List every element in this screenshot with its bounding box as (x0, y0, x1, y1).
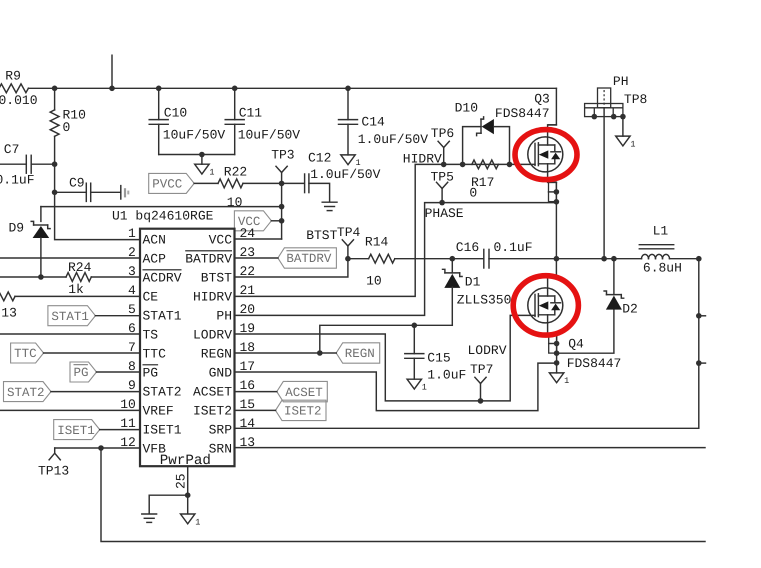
net flag ACSET (277, 381, 328, 401)
svg-text:0: 0 (469, 185, 477, 200)
svg-text:D10: D10 (455, 100, 478, 115)
svg-text:PG: PG (143, 366, 159, 381)
wire TP8 center to PH rail (603, 108, 605, 259)
svg-text:FDS8447: FDS8447 (567, 356, 622, 371)
svg-text:TP5: TP5 (431, 169, 454, 184)
ground PGND1 below C14 (341, 155, 355, 165)
wire BTST pin22 (235, 259, 348, 277)
wire PH pin20 (235, 203, 557, 316)
node D2 top junction (611, 256, 617, 262)
svg-text:C7: C7 (4, 142, 20, 157)
wire pin25 stub (187, 495, 189, 514)
node rail junctions (52, 86, 58, 92)
resistor R17 (472, 160, 499, 169)
node rail corner (696, 256, 702, 262)
svg-text:11: 11 (120, 416, 136, 431)
svg-text:C16: C16 (456, 240, 479, 255)
svg-text:ISET1: ISET1 (143, 423, 182, 438)
testpoint TP6 (438, 141, 449, 147)
svg-text:15: 15 (240, 397, 256, 412)
svg-text:6.8uH: 6.8uH (643, 260, 682, 275)
svg-text:PG: PG (74, 366, 89, 380)
node VFB junction (98, 445, 104, 451)
svg-text:24: 24 (240, 226, 256, 241)
wire TS pin6 (0, 333, 140, 335)
svg-text:TTC: TTC (143, 347, 167, 362)
svg-text:PH: PH (216, 309, 232, 324)
svg-text:1.0uF/50V: 1.0uF/50V (358, 132, 428, 147)
svg-text:TP8: TP8 (624, 92, 647, 107)
svg-text:4: 4 (128, 283, 136, 298)
svg-text:ISET2: ISET2 (284, 405, 322, 419)
capacitor C15 (413, 325, 415, 353)
svg-text:PwrPad: PwrPad (160, 453, 211, 469)
wire PwrPad pin 25 (187, 466, 189, 495)
svg-text:25: 25 (174, 473, 189, 489)
svg-text:TP13: TP13 (38, 464, 69, 479)
wire ISET1 to pin11 (100, 429, 140, 431)
svg-text:1: 1 (422, 383, 427, 393)
svg-text:ACSET: ACSET (193, 385, 232, 400)
node REGN junction (317, 350, 323, 356)
wire pin23 to BATDRV flag (235, 257, 278, 259)
node C15 junction (412, 323, 418, 329)
svg-text:10: 10 (366, 274, 382, 289)
ground PGND1 below C15 (407, 379, 421, 389)
wire VREF pin10 (0, 409, 140, 411)
svg-text:Q3: Q3 (534, 91, 550, 106)
svg-text:PVCC: PVCC (152, 178, 182, 192)
svg-text:0.010: 0.010 (0, 93, 38, 108)
svg-text:ZLLS350: ZLLS350 (457, 292, 512, 307)
svg-text:1.0uF: 1.0uF (427, 367, 466, 382)
node Q3 source junctions (554, 189, 560, 195)
svg-text:LODRV: LODRV (193, 328, 232, 343)
ground earth below PwrPad (142, 513, 157, 515)
svg-text:C11: C11 (239, 106, 263, 121)
svg-text:VREF: VREF (143, 404, 174, 419)
svg-text:R22: R22 (224, 164, 247, 179)
svg-text:TS: TS (143, 328, 159, 343)
node PH rail junction (601, 256, 607, 262)
wire Q4 source pins (556, 334, 558, 373)
diode D2 (607, 294, 622, 296)
connector TP8 (598, 88, 611, 108)
wire VFB down and right (101, 448, 705, 542)
svg-text:1: 1 (630, 139, 635, 149)
svg-text:C9: C9 (69, 176, 85, 191)
net flag STAT1 (48, 306, 96, 326)
svg-text:TP3: TP3 (271, 148, 294, 163)
op-amp U1 bq24610RGE box (140, 229, 235, 467)
svg-text:C12: C12 (308, 151, 331, 166)
capacitor C9 (55, 191, 87, 193)
ground PGND1 below Q4 (549, 373, 563, 383)
svg-text:LODRV: LODRV (468, 343, 507, 358)
node pin25 junction (185, 492, 191, 498)
node C9 junction (52, 190, 58, 196)
svg-text:SRN: SRN (209, 442, 232, 457)
svg-text:D9: D9 (9, 221, 25, 236)
svg-text:21: 21 (240, 283, 256, 298)
svg-text:STAT2: STAT2 (7, 386, 45, 400)
annotation red circle Q3 (515, 130, 577, 180)
wire stub above rail (111, 55, 113, 88)
svg-text:1.0uF/50V: 1.0uF/50V (310, 167, 380, 182)
svg-text:ACP: ACP (143, 252, 167, 267)
svg-text:ACN: ACN (143, 233, 166, 248)
wire Q3 source pins (555, 182, 557, 258)
capacitor C14 (347, 88, 349, 119)
svg-text:PH: PH (613, 74, 629, 89)
node VCC junctions (279, 204, 285, 210)
net flag BATDRV (278, 248, 337, 268)
resistor R14 (348, 258, 369, 260)
ground PGND1 below PwrPad (181, 514, 195, 524)
net flag ISET2 (276, 400, 327, 420)
svg-text:0.1uF: 0.1uF (0, 172, 35, 187)
wire Q4 drain (549, 259, 557, 276)
wire REGN rail (320, 325, 453, 353)
net flag PG (70, 362, 97, 382)
wire HIDRV pin21 (235, 164, 444, 296)
net flag TTC (11, 343, 44, 363)
node right rail taps (696, 313, 702, 319)
svg-text:ACDRV: ACDRV (143, 271, 182, 286)
capacitor C7 (0, 163, 26, 165)
svg-text:REGN: REGN (345, 347, 375, 361)
resistor R9 (0, 84, 28, 93)
svg-text:Q4: Q4 (568, 336, 584, 351)
wire PHASE to L1 (556, 258, 641, 260)
capacitor C10 (158, 88, 160, 119)
ground PGND1 below C10/C11 (195, 164, 209, 174)
resistor R22 (218, 179, 243, 188)
resistor R10 (54, 88, 56, 110)
capacitor C16 (452, 258, 484, 260)
svg-text:BATDRV: BATDRV (185, 252, 232, 267)
svg-text:ISET2: ISET2 (193, 404, 232, 419)
testpoint TP3 (276, 166, 287, 172)
svg-text:R14: R14 (365, 234, 389, 249)
svg-text:1: 1 (564, 376, 569, 386)
svg-text:10uF/50V: 10uF/50V (163, 127, 226, 142)
svg-text:C10: C10 (164, 106, 187, 121)
node Q4 source junctions (554, 341, 560, 347)
node C10C11 gnd junction (199, 152, 205, 158)
node TP8 pads (592, 114, 598, 120)
node TP7 junction (478, 398, 484, 404)
capacitor C11 (234, 88, 236, 119)
svg-text:BATDRV: BATDRV (286, 252, 332, 266)
ground earth below C12 (322, 201, 337, 203)
wire SRP pin14 (235, 259, 699, 429)
node TP4 junction (345, 256, 351, 262)
svg-text:C14: C14 (361, 115, 385, 130)
node D9 anode junction (38, 274, 44, 280)
wire Q3 drain (549, 88, 557, 125)
net flag PVCC (149, 173, 195, 193)
capacitor C12 (304, 174, 306, 193)
wire top VCC rail (28, 87, 556, 89)
transistor Q4 FDS8447 (528, 288, 563, 323)
wire pin25 to earth (149, 495, 188, 513)
wire pin18 to REGN flag (235, 352, 337, 354)
inductor L1 (642, 254, 649, 258)
wire TP3 to VCC pin (281, 183, 283, 239)
node PHASE junction (554, 256, 560, 262)
testpoint TP7 (475, 377, 486, 383)
svg-text:1: 1 (209, 168, 214, 178)
wire STAT1 to pin5 (95, 315, 140, 317)
wire HIDRV to gate (444, 163, 535, 165)
svg-text:CE: CE (143, 290, 159, 305)
node C7 junction (52, 161, 58, 167)
svg-text:TP4: TP4 (337, 225, 361, 240)
wire L1 to right rail (670, 258, 699, 260)
svg-text:GND: GND (209, 366, 233, 381)
svg-text:SRP: SRP (209, 423, 233, 438)
wire LODRV pin19 (235, 315, 536, 401)
svg-text:HIDRV: HIDRV (403, 152, 442, 167)
wire STAT2 to pin9 (51, 391, 140, 393)
net flag REGN (336, 343, 380, 363)
svg-text:TTC: TTC (14, 347, 37, 361)
wire TTC to pin7 (44, 352, 140, 354)
wire GND pin17 (235, 363, 557, 411)
wire ACP pin2 (0, 257, 140, 259)
node D10 right junction (507, 162, 513, 168)
svg-text:R24: R24 (68, 260, 92, 275)
svg-text:1: 1 (128, 226, 136, 241)
svg-text:10uF/50V: 10uF/50V (238, 127, 301, 142)
net flag ISET1 (54, 420, 100, 440)
svg-text:TP6: TP6 (431, 126, 454, 141)
wire C10-C11 bottom (159, 154, 235, 156)
svg-text:ACSET: ACSET (285, 386, 323, 400)
ground PGND1 below TP8 (616, 136, 630, 146)
svg-text:BTST: BTST (306, 228, 337, 243)
svg-text:STAT1: STAT1 (51, 310, 89, 324)
net flag STAT2 (4, 382, 52, 402)
wire VFB pin12 (55, 447, 140, 449)
resistor R24 (0, 276, 66, 278)
node D1 junction (450, 256, 456, 262)
svg-text:1: 1 (195, 517, 200, 527)
svg-text:ISET1: ISET1 (57, 424, 95, 438)
testpoint TP13 (49, 453, 60, 460)
svg-text:VCC: VCC (209, 233, 233, 248)
wire Q4 to D2 (557, 309, 614, 353)
node D10 left junction (460, 162, 466, 168)
wire VCC flag to node (271, 220, 281, 222)
diode D9 (40, 207, 42, 222)
wire PVCC to R22 (194, 182, 218, 184)
svg-text:9: 9 (128, 378, 136, 393)
svg-text:R9: R9 (5, 68, 21, 83)
svg-text:0: 0 (63, 120, 71, 135)
resistor R13 partial (0, 292, 15, 301)
svg-text:C15: C15 (427, 350, 450, 365)
svg-text:0.1uF: 0.1uF (494, 240, 533, 255)
wire PG to pin8 (97, 371, 141, 373)
net flag VCC (234, 211, 271, 231)
svg-text:STAT2: STAT2 (143, 385, 182, 400)
svg-text:16: 16 (240, 378, 256, 393)
svg-text:PHASE: PHASE (425, 206, 464, 221)
svg-text:HIDRV: HIDRV (193, 290, 232, 305)
svg-text:U1 bq24610RGE: U1 bq24610RGE (112, 208, 214, 223)
svg-text:FDS8447: FDS8447 (495, 106, 550, 121)
svg-text:D1: D1 (465, 274, 481, 289)
svg-text:L1: L1 (653, 224, 669, 239)
svg-text:TP7: TP7 (470, 362, 493, 377)
wire R22 to TP3 node (243, 182, 304, 184)
svg-text:REGN: REGN (201, 347, 232, 362)
diode D1 ZLLS350 (451, 259, 453, 273)
svg-text:20: 20 (240, 302, 256, 317)
svg-text:1k: 1k (68, 282, 84, 297)
svg-text:5: 5 (128, 302, 136, 317)
svg-text:13: 13 (1, 306, 17, 321)
testpoint TP4 (342, 240, 353, 246)
svg-text:10: 10 (227, 195, 243, 210)
wire TP8 to gnd (622, 117, 624, 137)
wire SRN pin13 (235, 447, 706, 449)
wire pin15 to ISET2 (235, 409, 276, 411)
svg-text:STAT1: STAT1 (143, 309, 182, 324)
wire D9 to VCC node (41, 206, 282, 208)
transistor Q3 FDS8447 (528, 137, 563, 172)
node TP6 junction (441, 162, 447, 168)
svg-text:BTST: BTST (201, 271, 232, 286)
testpoint TP5 (437, 182, 448, 188)
node TP3 junction (279, 181, 285, 187)
svg-text:10: 10 (120, 397, 136, 412)
wire pin16 to ACSET (235, 391, 277, 393)
svg-text:D2: D2 (622, 301, 638, 316)
annotation red circle Q4 (513, 276, 578, 335)
diode D10 (463, 127, 481, 165)
node TP5 junction (439, 200, 445, 206)
